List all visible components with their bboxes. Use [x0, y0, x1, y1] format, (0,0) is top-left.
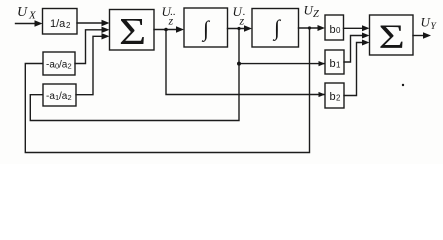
svg-text:Σ: Σ — [119, 11, 146, 53]
wire b2 output to sigma2 — [344, 43, 364, 96]
summing block U1 (left sigma) — [110, 10, 155, 51]
svg-text:z: z — [168, 14, 174, 28]
svg-text:Z: Z — [313, 9, 319, 20]
wire b0 output to sigma2 — [344, 27, 364, 29]
integrator block 2 — [252, 9, 299, 48]
arrowhead into sigma1 bottom input — [102, 33, 110, 39]
svg-text:b: b — [330, 24, 336, 36]
wire 1/a2 to sigma1 — [77, 22, 103, 24]
svg-text:1: 1 — [336, 60, 341, 69]
block b2 — [325, 83, 344, 108]
svg-text:2: 2 — [66, 21, 71, 30]
svg-text:/a: /a — [59, 60, 68, 71]
arrowhead into sigma1 top input — [102, 20, 110, 26]
svg-text:U: U — [17, 5, 28, 20]
junction node on z-dd line — [164, 28, 168, 32]
arrowhead into b2 — [319, 92, 326, 97]
block b1 — [325, 50, 344, 74]
svg-text:Σ: Σ — [379, 17, 405, 56]
wire b1 output to sigma2 — [344, 36, 364, 63]
wire -a0/a2 output to sigma1 — [75, 30, 103, 64]
svg-text:b: b — [330, 91, 336, 103]
wire z-dot branch down, to b1 and feedback to -a1/a2 — [30, 29, 239, 121]
svg-text:1/a: 1/a — [50, 18, 66, 30]
arrowhead into b0 — [318, 25, 326, 31]
integrator block 1 — [184, 8, 228, 47]
label b0 — [330, 24, 342, 36]
arrowhead into sigma2 mid — [362, 33, 370, 39]
arrowhead Uy output — [423, 32, 431, 38]
label U z-double-dot — [162, 4, 176, 28]
label -a0/a2 — [46, 60, 72, 71]
svg-text:/a: /a — [59, 91, 68, 102]
arrowhead into integrator2 — [244, 25, 252, 31]
wire integrator1 output to integrator2 — [228, 28, 246, 30]
arrowhead into b1 — [319, 61, 326, 66]
junction node on z-dot line — [237, 27, 240, 30]
block -a1/a2 — [43, 84, 76, 106]
label U z-dot — [233, 4, 246, 28]
svg-text:2: 2 — [336, 93, 341, 102]
svg-text:z: z — [239, 14, 245, 28]
block -a0/a2 — [43, 52, 75, 75]
svg-text:X: X — [28, 10, 37, 22]
wire Uy output — [413, 35, 424, 37]
label Ux — [17, 5, 37, 22]
summing block U2 (right sigma) — [370, 15, 414, 55]
block b0 — [325, 15, 344, 40]
svg-text:-a: -a — [46, 91, 55, 102]
junction node on z line — [308, 26, 311, 29]
svg-text:b: b — [330, 58, 336, 70]
junction node z-dot to b1 — [237, 62, 241, 66]
wire Ux input — [16, 23, 37, 25]
label Uz — [304, 3, 320, 21]
wire z branch down feedback to -a0/a2 — [25, 28, 309, 153]
svg-text:-a: -a — [46, 60, 55, 71]
stray scan dot — [402, 84, 404, 86]
wire z-dd branch down to b2 — [166, 30, 325, 95]
block 1/a2 — [43, 9, 78, 35]
arrowhead into integrator1 — [176, 26, 184, 32]
label Uy — [421, 15, 438, 33]
label -a1/a2 — [46, 91, 72, 102]
arrowhead Ux into 1/a2 — [35, 20, 43, 26]
arrowhead into sigma2 top — [362, 25, 370, 31]
svg-text:2: 2 — [68, 62, 72, 71]
label 1/a2 — [50, 18, 71, 30]
svg-text:0: 0 — [336, 26, 341, 35]
arrowhead into sigma2 bottom — [362, 40, 370, 46]
label b1 — [330, 58, 342, 70]
wire z-dot branch to b1 — [239, 63, 325, 65]
wire integrator2 output to b0 — [299, 27, 319, 29]
wire sigma1 output to integrator1 — [154, 29, 178, 31]
wire -a1/a2 output to sigma1 — [76, 36, 103, 94]
svg-text:2: 2 — [68, 93, 72, 102]
arrowhead into sigma1 mid input — [102, 27, 110, 33]
label b2 — [330, 91, 342, 103]
